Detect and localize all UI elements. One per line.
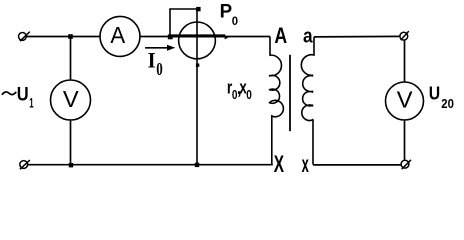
svg-text:V: V [397,87,413,113]
wattmeter P0 [179,22,216,59]
node junction wattmeter bottom [195,163,199,167]
svg-text:P: P [220,1,233,22]
voltmeter V2 [386,82,424,120]
terminal TR [400,31,409,40]
wire [70,120,72,164]
wire secondary top [314,35,400,38]
wire wattmeter voltage bracket [170,9,197,37]
node junction bottom voltmeter [69,163,73,167]
svg-text:0: 0 [232,14,239,28]
wire secondary bottom [313,164,401,166]
svg-text:A: A [110,22,125,48]
arrow I0 [145,45,175,51]
svg-text:0: 0 [156,59,163,79]
svg-text:V: V [63,86,79,112]
label U20 [429,82,454,111]
svg-text:0: 0 [246,87,252,102]
svg-text:I: I [148,48,156,73]
label r0,x0 [227,78,252,102]
wattmeter current coil arrowhead [225,36,229,40]
voltmeter V1 [51,80,91,120]
svg-text:20: 20 [441,96,454,111]
label I0 [148,48,163,79]
terminal BR [401,160,411,169]
node bracket corner dot [196,7,200,11]
svg-text:U: U [429,82,440,103]
label ~U1 [0,0,1,1]
wire bottom-left [27,164,272,166]
transformer primary winding r0,x0 [269,37,283,165]
label P0 [220,1,239,28]
transformer secondary winding [301,37,314,165]
svg-text:1: 1 [29,95,34,111]
wire wattmeter vertical [196,9,198,165]
svg-text:X: X [274,151,284,178]
wire wattmeter current coil (thick) [169,34,226,37]
node junction top-left [68,34,73,39]
node junction wattmeter tap [168,35,173,40]
wire right vertical top [404,40,406,82]
wire [70,37,72,81]
wire ammeter to transformer [140,36,270,38]
svg-text:a: a [303,25,313,47]
wire top-left [26,36,100,38]
wire right vertical bottom [404,120,406,160]
transformer core [289,55,291,131]
ammeter A1 [100,16,140,56]
svg-text:U: U [17,84,29,106]
svg-text:A: A [274,23,287,48]
terminal TL [19,32,30,42]
node dot below wattmeter [196,64,199,67]
terminal BL [20,160,30,169]
svg-text:x: x [302,151,309,177]
